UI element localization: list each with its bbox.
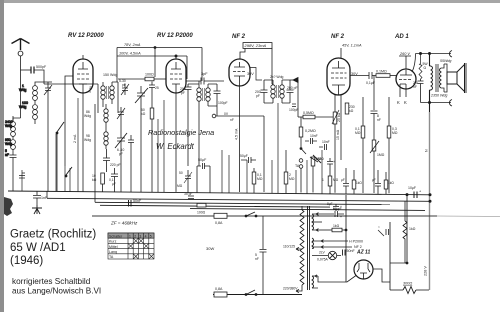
capacitor 1nF to ground (33, 191, 48, 205)
label 45V (341, 44, 362, 59)
capacitor 0,1uF (109, 168, 118, 192)
svg-text:8μF: 8μF (327, 202, 333, 206)
hang cap x346 (341, 168, 349, 194)
svg-text:45V, 1,1mA: 45V, 1,1mA (342, 44, 362, 48)
svg-text:220/380V: 220/380V (283, 287, 298, 291)
svg-text:25 kΩ: 25 kΩ (337, 112, 341, 122)
svg-text:2LV: 2LV (319, 251, 326, 255)
HT vertical line (345, 195, 347, 282)
svg-text:(1946): (1946) (10, 255, 43, 267)
wire V2 grid (165, 78, 167, 80)
svg-text:30V: 30V (247, 72, 254, 76)
svg-text:0,5MΩ: 0,5MΩ (303, 111, 314, 115)
svg-text:MΩ: MΩ (392, 131, 398, 135)
capacitor 10nF second (319, 140, 330, 150)
capacitor 200pF T3 left (255, 80, 273, 103)
capacitor 220pF osc (103, 149, 121, 167)
resistor 300 Ohm field (390, 216, 429, 294)
variable capacitor C-tune2 (115, 132, 127, 148)
capacitor 200pF T3 right (282, 80, 298, 103)
svg-text:pF: pF (181, 91, 185, 95)
resistor 0,1M hang (252, 168, 263, 193)
oscillator coil L5 86 Wdg (84, 104, 108, 127)
svg-text:65 W /AD1: 65 W /AD1 (10, 242, 66, 254)
capacitor 2,5nF damper (413, 79, 424, 103)
IF transformer T3 (270, 75, 284, 103)
svg-text:MΩ: MΩ (257, 177, 263, 181)
svg-text:4: 4 (145, 234, 147, 238)
wires osc block to bus (95, 103, 141, 192)
svg-text:kΩ: kΩ (349, 109, 354, 113)
svg-text:3pF: 3pF (201, 72, 208, 76)
svg-text:μF: μF (341, 178, 345, 182)
svg-text:78V, 2mA: 78V, 2mA (124, 43, 141, 47)
svg-text:nF: nF (413, 85, 417, 89)
svg-text:RV 12 P2000: RV 12 P2000 (68, 33, 104, 39)
svg-text:100pF: 100pF (289, 108, 299, 112)
resistor 0,3M right (387, 97, 398, 193)
resistor 5k plate damper (419, 54, 428, 80)
wire (47, 96, 49, 130)
coupling capacitor 3pF (186, 72, 224, 85)
resistor 1k dropper x405 (403, 201, 416, 263)
svg-text:Kurz: Kurz (109, 240, 117, 244)
transformer core (308, 206, 310, 290)
svg-text:150 Wdg: 150 Wdg (103, 73, 117, 77)
svg-text:50nF: 50nF (133, 199, 142, 203)
mains switch bottom (245, 290, 257, 296)
grid terminal circle (212, 112, 264, 192)
label box 298V 23mA (240, 43, 272, 59)
trimmer capacitor 5-30pF (119, 79, 129, 95)
hang resistor x354 (352, 170, 362, 194)
speaker top lead (416, 51, 453, 58)
capacitor 100pF T2 right (208, 84, 228, 106)
svg-text:NF 2: NF 2 (232, 34, 246, 40)
trimmer next to L5 (117, 107, 125, 120)
speaker LS (444, 63, 466, 93)
svg-text:50nF: 50nF (347, 249, 356, 253)
supply line 100V 4,5mA (117, 52, 187, 80)
svg-text:200 pF: 200 pF (287, 86, 298, 90)
tube V4 NF2 (327, 58, 350, 95)
switch table (108, 233, 154, 259)
svg-text:0,1MΩ: 0,1MΩ (376, 70, 387, 74)
svg-text:1kΩ: 1kΩ (409, 227, 416, 231)
hang cap x378 (372, 170, 381, 194)
scan border top (0, 0, 500, 3)
hum cap near 390 (378, 225, 389, 236)
resistor 0,5M (298, 111, 335, 119)
mains capacitor column (255, 216, 267, 295)
svg-text:0,8A: 0,8A (215, 221, 223, 225)
scan smudge left edge (4, 197, 13, 216)
svg-text:100V, 4,5mA: 100V, 4,5mA (119, 52, 141, 56)
electrolytic 50uF heater (320, 207, 344, 219)
svg-text:0,075A: 0,075A (317, 258, 328, 262)
svg-text:≈: ≈ (378, 225, 380, 229)
svg-text:1kΩ: 1kΩ (333, 224, 340, 228)
main bus C (95, 202, 390, 204)
resistor 0,2M (299, 117, 316, 147)
wire column x78 (77, 98, 79, 192)
potentiometer 1M volume (311, 155, 324, 193)
svg-text:RV 12 P2000: RV 12 P2000 (157, 33, 193, 39)
wire V2 cathode down (175, 93, 177, 192)
svg-text:Wdg: Wdg (5, 142, 12, 146)
svg-text:aus Lange/Nowisch B.VI: aus Lange/Nowisch B.VI (12, 287, 101, 296)
resistor 0,3M left (355, 97, 365, 193)
wire V1 cathode down (82, 93, 84, 192)
svg-text:N: N (425, 149, 429, 152)
fuse 0,8A bottom (214, 287, 227, 297)
svg-text:50 μF: 50 μF (333, 207, 342, 211)
svg-text:55Wdg: 55Wdg (440, 59, 451, 63)
resistor 100 Ohm bus (197, 203, 206, 214)
svg-text:nF: nF (255, 257, 259, 261)
svg-text:Lang: Lang (109, 250, 117, 254)
svg-text:0,2MΩ: 0,2MΩ (305, 129, 316, 133)
supply line 78V 2mA (117, 43, 202, 82)
trimmer capacitor 3-12pF (44, 82, 52, 96)
tube V2 RV12P2000 (166, 59, 186, 93)
fuse 0,8A top (214, 213, 227, 225)
svg-text:kΩ: kΩ (141, 112, 146, 116)
svg-text:pF: pF (256, 94, 260, 98)
electrolytic 10uF bus A right (406, 186, 431, 202)
svg-text:2: 2 (134, 234, 136, 238)
capacitor 50nF AZ11 (343, 249, 356, 256)
resistor 10k (92, 173, 104, 192)
output transformer T4 (430, 64, 445, 92)
svg-text:Mittel: Mittel (109, 245, 118, 249)
svg-text:+: + (340, 215, 342, 219)
switch S2 (65, 167, 72, 177)
trimmer cap 50 (177, 170, 192, 193)
svg-text:50μF: 50μF (198, 158, 207, 162)
capacitor 5nF (5, 149, 17, 162)
svg-text:K: K (404, 100, 407, 105)
electrolytic 50uF second (240, 154, 256, 163)
mains switch top (245, 212, 257, 217)
svg-text:1nF: 1nF (41, 196, 48, 200)
coil L1 antenna input (33, 82, 44, 104)
capacitor 100pF detector (289, 104, 299, 112)
svg-text:4,5 mA: 4,5 mA (235, 128, 239, 140)
pot 1M arrow hang (310, 157, 322, 162)
primary taps (263, 216, 302, 295)
svg-text:nF: nF (5, 153, 9, 157)
oscillator coil block wires (44, 83, 98, 85)
svg-text:ZF = 468kHz: ZF = 468kHz (110, 221, 138, 226)
hang resistor x386 (384, 172, 394, 194)
variable capacitor C-tune1 (135, 86, 148, 103)
rectifier left lead (345, 276, 356, 283)
svg-text:10nF: 10nF (310, 134, 318, 138)
svg-text:3: 3 (139, 234, 141, 238)
svg-text:50: 50 (179, 171, 183, 175)
svg-text:2 mA: 2 mA (73, 134, 77, 143)
svg-text:1MΩ: 1MΩ (314, 157, 322, 161)
diode detector (290, 78, 298, 118)
trimmer 6..10pF (117, 135, 134, 156)
capacitor 25pF (149, 82, 159, 92)
svg-text:1: 1 (129, 234, 131, 238)
wire NF2 line to T3 (250, 68, 262, 81)
svg-text:35 pF: 35 pF (184, 192, 192, 196)
capacitor 50nF in bus (129, 199, 142, 207)
svg-text:MΩ: MΩ (289, 177, 295, 181)
coupling capacitor 0,1uF to AD1 (350, 72, 376, 85)
svg-text:nF: nF (230, 118, 234, 122)
pilot lamp (312, 251, 341, 262)
switch S3 (300, 148, 306, 155)
svg-text:Graetz (Rochlitz): Graetz (Rochlitz) (10, 229, 96, 241)
coil L4 950 Wdg (11, 140, 16, 152)
power transformer primary (300, 206, 304, 288)
mains line top with ZF label (92, 216, 500, 226)
electrolytic vertical hang (322, 158, 339, 194)
svg-text:2350 Wdg: 2350 Wdg (430, 94, 447, 98)
resistor 0,1M grid AD1 (376, 70, 397, 78)
tube V1 RV12P2000 (73, 55, 93, 93)
resistor 230k plate (345, 103, 355, 114)
tube V5 AD1 (396, 69, 416, 89)
svg-text:MΩ: MΩ (333, 178, 339, 182)
svg-text:kΩ: kΩ (92, 178, 97, 182)
rectifier right lead (373, 269, 390, 282)
svg-text:Wdg: Wdg (84, 114, 91, 118)
svg-text:100Ω: 100Ω (197, 211, 206, 215)
svg-text:220 pF: 220 pF (110, 163, 121, 167)
svg-text:25: 25 (155, 86, 159, 90)
svg-text:NF 2: NF 2 (354, 245, 362, 249)
label 260V (399, 52, 411, 69)
filter loop verticals (390, 195, 408, 290)
svg-text:100Ω: 100Ω (145, 73, 154, 77)
resistor 100 Ohm grid stopper (118, 73, 166, 81)
svg-text:TA: TA (295, 164, 300, 168)
svg-text:298V, 23mA: 298V, 23mA (244, 43, 267, 48)
svg-text:228 V: 228 V (424, 266, 428, 276)
capacitor 10nF (305, 134, 318, 144)
bus C left riser (94, 192, 96, 202)
electrolytic 50uF (197, 106, 210, 193)
svg-text:NF 2: NF 2 (331, 34, 345, 40)
main bus B (47, 198, 430, 201)
grid network capacitor 8nF (371, 76, 381, 125)
capacitor 500pF antenna series (21, 65, 47, 84)
main bus A ground (8, 191, 430, 195)
wire risers misc top section (19, 79, 367, 194)
secondary winding HV (312, 275, 345, 288)
svg-text:1MΩ: 1MΩ (377, 153, 385, 157)
IF transformer T2 (197, 81, 210, 106)
antenna (12, 39, 30, 71)
svg-text:AZ 11: AZ 11 (356, 250, 370, 256)
svg-text:50μF: 50μF (240, 154, 248, 158)
svg-text:μF: μF (372, 178, 376, 182)
svg-text:110/125: 110/125 (283, 245, 295, 249)
svg-text:300Ω: 300Ω (403, 282, 412, 286)
svg-text:pF: pF (122, 83, 126, 87)
rectifier V6 AZ11 (354, 260, 373, 279)
scan border left (0, 0, 4, 312)
svg-text:K: K (397, 100, 400, 105)
svg-text:Wdg: Wdg (84, 138, 91, 142)
svg-text:15 mA: 15 mA (336, 129, 340, 140)
svg-text:500pF: 500pF (36, 65, 47, 69)
secondary winding heater top (312, 213, 322, 232)
svg-text:+: + (333, 160, 335, 164)
svg-text:10μF: 10μF (408, 186, 416, 190)
svg-text:MΩ: MΩ (355, 131, 361, 135)
svg-text:5: 5 (150, 234, 152, 238)
main bus D (100, 205, 330, 207)
switch S1 wave band (56, 122, 64, 192)
potentiometer 25k cathode (332, 95, 341, 193)
svg-text:Schalter: Schalter (109, 234, 123, 238)
wire V3 down 4,5mA (235, 86, 240, 192)
output plate wire (412, 54, 416, 73)
svg-text:μF: μF (112, 182, 116, 186)
svg-text:Wdg: Wdg (19, 88, 26, 92)
coil L3 2400 Wdg (11, 116, 16, 139)
svg-text:korrigiertes Schaltbild: korrigiertes Schaltbild (12, 277, 91, 286)
svg-text:1kΩ: 1kΩ (356, 181, 362, 185)
wire antenna column (20, 70, 22, 118)
resistor 1k heater (320, 224, 346, 232)
bus B left riser (46, 191, 48, 198)
svg-text:MΩ: MΩ (177, 184, 183, 188)
oscillator coil L6 98 Wdg (84, 127, 108, 149)
electrolytic 8uF on bus E (327, 202, 342, 211)
svg-text:10nF: 10nF (322, 140, 330, 144)
supply drop from 298V box (271, 48, 273, 84)
secondary winding heater RV (312, 238, 363, 249)
svg-text:100pF: 100pF (218, 101, 228, 105)
resistor 2M hang (284, 150, 295, 193)
IF transformer T1 box (98, 82, 118, 113)
wire left column to bus (13, 118, 21, 191)
tube V3 NF2 (229, 59, 250, 86)
resistor 50k (141, 91, 154, 192)
svg-text:TA: TA (109, 255, 114, 259)
heavy line anode supply (419, 52, 430, 290)
svg-text:Wdg: Wdg (5, 124, 12, 128)
wire 15mA (336, 95, 341, 160)
TA terminals (295, 159, 303, 193)
mains line bottom (213, 294, 302, 296)
svg-text:W. Eckardt: W. Eckardt (156, 142, 195, 151)
wire V1 grid tap (65, 76, 73, 166)
capacitor 35pF (184, 192, 194, 199)
main bus E (190, 209, 425, 211)
svg-text:2x? Wdg: 2x? Wdg (270, 75, 283, 79)
potentiometer 1M hum (370, 124, 385, 193)
svg-text:260 V: 260 V (399, 52, 410, 56)
svg-text:30W: 30W (206, 246, 214, 251)
ground symbol (32, 205, 42, 214)
svg-text:H P2000: H P2000 (349, 240, 363, 244)
svg-text:1kΩ: 1kΩ (388, 181, 394, 185)
svg-text:nF: nF (377, 118, 381, 122)
cathode legs K K (397, 89, 407, 106)
speaker bottom lead (421, 100, 453, 107)
wire T2 bottoms (188, 106, 217, 166)
coil L2 antenna secondary (33, 105, 38, 124)
svg-text:0,8A: 0,8A (215, 287, 223, 291)
svg-text:Wdg: Wdg (19, 105, 26, 109)
svg-text:AD 1: AD 1 (394, 34, 409, 40)
capacitor 200pF T2 left (180, 84, 199, 106)
